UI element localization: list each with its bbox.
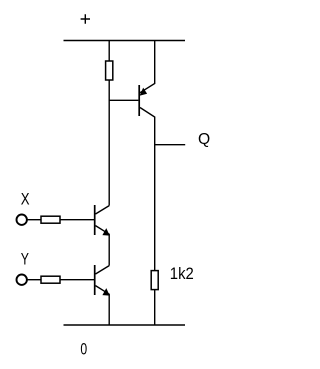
svg-text:Y: Y: [21, 249, 29, 268]
svg-text:0: 0: [80, 339, 87, 358]
svg-text:X: X: [21, 189, 30, 208]
svg-text:Q: Q: [198, 131, 210, 148]
svg-text:1k2: 1k2: [170, 264, 194, 283]
